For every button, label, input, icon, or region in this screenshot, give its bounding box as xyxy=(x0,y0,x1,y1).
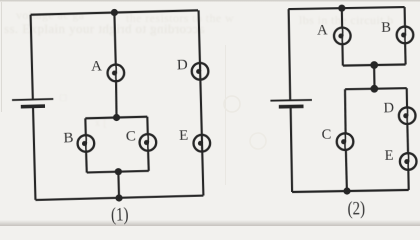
wire: middle branch from top node down to lamp A xyxy=(114,13,115,65)
paper edge shading top xyxy=(0,0,420,2)
wire: left vertical lower (battery bottom lead) xyxy=(33,106,35,200)
svg-text:(1): (1) xyxy=(111,205,129,225)
svg-text:B: B xyxy=(381,20,391,36)
wire: top wire of circuit 2 xyxy=(288,7,404,9)
svg-text:D: D xyxy=(383,100,394,116)
battery B1: long thin positive plate xyxy=(12,99,53,100)
node: top junction dot xyxy=(111,9,118,16)
wire: top wire of circuit 1 xyxy=(31,10,198,14)
bleed-through text (faint show-through) xyxy=(4,21,205,37)
wire: box right branch upper (to lamp C) xyxy=(146,117,149,134)
wire: bottom wire of circuit 2 xyxy=(292,190,409,192)
svg-text:E: E xyxy=(179,128,189,144)
lamp C (circuit 1) xyxy=(139,134,156,151)
svg-text:B: B xyxy=(63,130,73,146)
wire: parallel box top bar xyxy=(85,117,147,119)
lamp C (circuit 2) xyxy=(337,133,354,150)
svg-text:E: E xyxy=(385,148,394,164)
svg-text:A: A xyxy=(317,22,328,38)
wire: right vertical of circuit 1 (D-E branch) xyxy=(199,10,204,195)
lamp A (circuit 1) xyxy=(107,64,124,81)
wire: box left branch lower xyxy=(85,152,88,173)
wire: branch D-E vertical upper xyxy=(406,88,408,107)
paper edge left line xyxy=(1,2,2,112)
battery B1: short thick negative plate xyxy=(21,104,45,108)
paper edge shading bottom xyxy=(0,220,420,226)
wire: branch A vertical upper xyxy=(341,8,343,27)
wire: left vertical lower (battery bottom lead) xyxy=(291,107,292,192)
faint show-through circles xyxy=(224,96,240,112)
wire: box right branch lower xyxy=(147,151,150,171)
lamp B (circuit 1) xyxy=(77,135,94,152)
svg-text:C: C xyxy=(126,128,136,144)
lamp D (circuit 2) xyxy=(399,107,416,124)
wire: lamp A to parallel box top node xyxy=(116,81,117,117)
node: bottom wire junction dot (circuit 2) xyxy=(343,187,350,194)
wire: branch C vertical upper xyxy=(344,89,347,133)
lamp E (circuit 1) xyxy=(193,135,210,152)
faint fold line between figures xyxy=(225,45,226,185)
svg-text:(2): (2) xyxy=(347,199,365,219)
svg-text:C: C xyxy=(322,127,332,143)
wire: box left branch upper (to lamp B) xyxy=(84,118,87,135)
wire: bottom wire of circuit 1 xyxy=(35,196,203,200)
wire: branch B vertical lower xyxy=(404,43,407,64)
wire: branch A vertical lower xyxy=(341,44,344,65)
node: top junction dot (circuit 2) xyxy=(338,5,345,12)
wire: A-B bottom bar xyxy=(343,64,406,65)
node: parallel box top junction dot xyxy=(113,114,120,121)
lamp E (circuit 2) xyxy=(400,153,417,170)
wire: between lamp D and lamp E xyxy=(406,124,409,153)
node: parallel box bottom junction dot xyxy=(115,168,122,175)
svg-text:D: D xyxy=(177,57,188,73)
lamp B (circuit 2) xyxy=(397,26,414,43)
node: bottom wire junction dot xyxy=(115,194,122,201)
wire: left vertical upper (battery top lead) xyxy=(31,15,33,100)
lamp A (circuit 2) xyxy=(334,27,351,44)
node: lower box top junction dot xyxy=(370,85,378,93)
svg-text:A: A xyxy=(91,58,102,74)
node: A-B bar junction dot xyxy=(370,61,378,69)
wire: lower box top bar xyxy=(345,88,407,89)
wire: left vertical upper (battery top lead) xyxy=(289,9,291,100)
wire: branch D-E vertical lower xyxy=(407,170,410,190)
wire: right vertical upper (branch B) xyxy=(404,7,406,27)
wire: branch C vertical lower xyxy=(346,150,347,191)
wire: connector between the two parallel groups xyxy=(373,65,376,89)
battery B2: long thin positive plate xyxy=(270,99,311,102)
lamp D (circuit 1) xyxy=(192,63,209,80)
wire: parallel box bottom bar xyxy=(87,171,149,173)
wire: box bottom to main bottom wire xyxy=(117,172,120,198)
battery B2: short thick negative plate xyxy=(279,105,304,109)
